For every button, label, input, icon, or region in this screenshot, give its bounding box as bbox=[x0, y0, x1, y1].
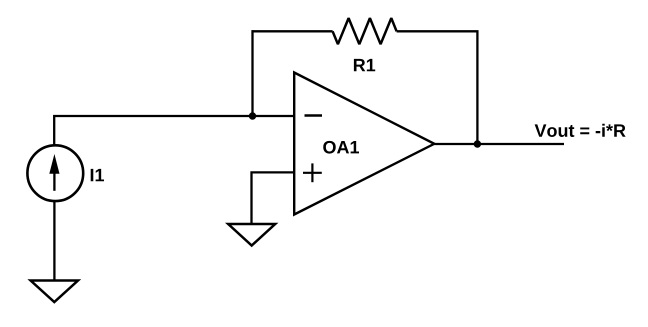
label R1 bbox=[354, 59, 375, 71]
node A junction dot (inverting input net) bbox=[249, 112, 256, 119]
wire: non-inverting input to ground bbox=[252, 172, 295, 224]
wire: feedback top right lead and down to output bbox=[397, 31, 478, 144]
wire: op-amp output bbox=[434, 143, 564, 145]
op-amp plus input symbol bbox=[303, 163, 322, 182]
label I1 bbox=[91, 169, 104, 181]
current source I1 bbox=[27, 145, 83, 201]
ground below I1 bbox=[31, 281, 78, 303]
wire: junction up to feedback bbox=[251, 30, 253, 116]
op-amp OA1 bbox=[294, 73, 434, 215]
label Vout = -i*R bbox=[535, 124, 626, 137]
resistor R1 bbox=[333, 18, 397, 44]
label OA1 bbox=[323, 141, 359, 154]
node B junction dot (output net) bbox=[474, 140, 481, 147]
wire: I1 bottom to ground bbox=[53, 201, 55, 281]
wire: feedback top left lead bbox=[252, 30, 333, 32]
wire: input net horizontal from I1 to op-amp inverting input bbox=[54, 116, 294, 146]
op-amp minus input symbol bbox=[305, 114, 323, 117]
ground at non-inverting input bbox=[228, 224, 275, 246]
